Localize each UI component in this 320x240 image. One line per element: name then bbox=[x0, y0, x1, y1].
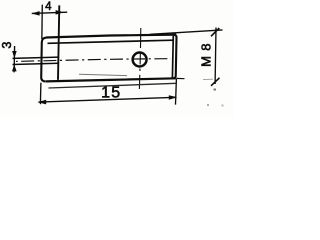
slot bottom edge line (full height vertical) + extension for dim 4 bbox=[58, 5, 59, 80]
dim M8: bottom extension line stub near face bbox=[176, 77, 184, 79]
svg-text:3: 3 bbox=[0, 42, 14, 49]
svg-text:4: 4 bbox=[45, 1, 52, 13]
dim 15: right extension line bbox=[175, 79, 178, 105]
hole vertical centerline (dash-dot) bbox=[139, 28, 140, 89]
dim M8: faint bottom extension remnant bbox=[203, 78, 213, 80]
dim M8: bottom oblique tick bbox=[211, 78, 220, 86]
extra stray scan line below body bbox=[49, 83, 177, 88]
cross hole circle bbox=[133, 53, 147, 67]
dim 3: top arrowhead (pointing down) bbox=[12, 51, 17, 58]
dim 3: bottom arrowhead (pointing up) bbox=[12, 64, 17, 71]
dim 4: right arrowhead bbox=[56, 10, 64, 15]
screw body right end face with rounded corners bbox=[173, 35, 177, 79]
screw body bottom edge bbox=[46, 78, 176, 81]
dim 15: right arrowhead bbox=[169, 95, 178, 100]
scan noise speck 3 bbox=[222, 105, 224, 107]
scan noise speck 2 bbox=[207, 104, 209, 106]
right chamfer edge line bbox=[171, 36, 174, 78]
dim M8: top extension line bbox=[150, 30, 223, 34]
dim 4: dimension line bbox=[32, 12, 67, 13]
dim 15: left extension line bbox=[39, 83, 42, 105]
dim 4: left arrowhead bbox=[31, 11, 39, 16]
svg-text:M8: M8 bbox=[199, 38, 214, 66]
axis centerline (dash-dot) bbox=[16, 59, 171, 62]
thread root line bottom (faint, partial) bbox=[79, 74, 127, 75]
dim M8: dimension line bbox=[214, 28, 217, 85]
scan noise speck 1 bbox=[214, 89, 217, 91]
dim 4: left extension line (left face extended up) bbox=[41, 5, 43, 39]
dim M8: top oblique tick bbox=[211, 28, 219, 36]
slot upper edge + extension line for dim 3 bbox=[13, 57, 59, 58]
screw body left end face with rounded corners bbox=[41, 38, 46, 82]
dim 15: left arrowhead bbox=[38, 100, 47, 105]
dim 15: dimension line bbox=[39, 97, 177, 102]
thread root line top (thin) bbox=[48, 40, 173, 43]
svg-text:15: 15 bbox=[101, 85, 121, 102]
slot lower edge + extension line for dim 3 bbox=[13, 63, 59, 64]
screw body top edge bbox=[46, 35, 176, 38]
dim 3: dimension line bbox=[13, 46, 16, 72]
